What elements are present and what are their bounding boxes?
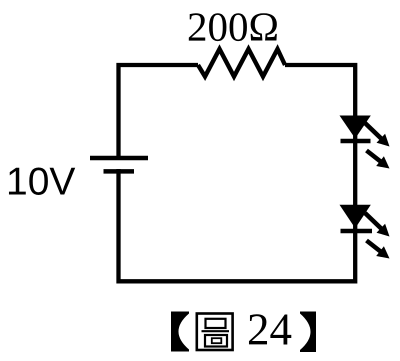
- caption character 圖 bottom 回 inner: [212, 338, 222, 343]
- battery V1 short plate (-): [104, 169, 135, 174]
- LED D2 triangle: [340, 205, 371, 229]
- wire top-right + right + bottom + left-lower: [119, 65, 356, 281]
- caption left lenticular bracket 【: [171, 312, 189, 352]
- LED D2 cathode bar: [341, 229, 373, 234]
- resistor R1 zigzag: [198, 49, 285, 77]
- svg-text:24: 24: [247, 305, 292, 355]
- LED D1 triangle: [340, 116, 371, 139]
- svg-text:10V: 10V: [6, 161, 75, 204]
- LED D1 light arrow 1: [365, 123, 390, 147]
- battery V1 long plate (+): [90, 156, 148, 161]
- caption right lenticular bracket 】: [300, 312, 316, 353]
- caption character 圖 middle stroke: [202, 330, 230, 332]
- svg-text:200Ω: 200Ω: [187, 4, 279, 50]
- caption character 圖 bottom 回 outer: [205, 335, 227, 347]
- LED D1 light arrow 2: [367, 151, 390, 169]
- caption character 圖 top mouth 口: [206, 319, 226, 328]
- wire left + top-left segment: [119, 65, 199, 160]
- LED D2 light arrow 2: [367, 241, 390, 259]
- caption character 圖 outer box: [197, 314, 233, 351]
- LED D1 cathode bar: [341, 139, 371, 144]
- LED D2 light arrow 1: [365, 213, 390, 237]
